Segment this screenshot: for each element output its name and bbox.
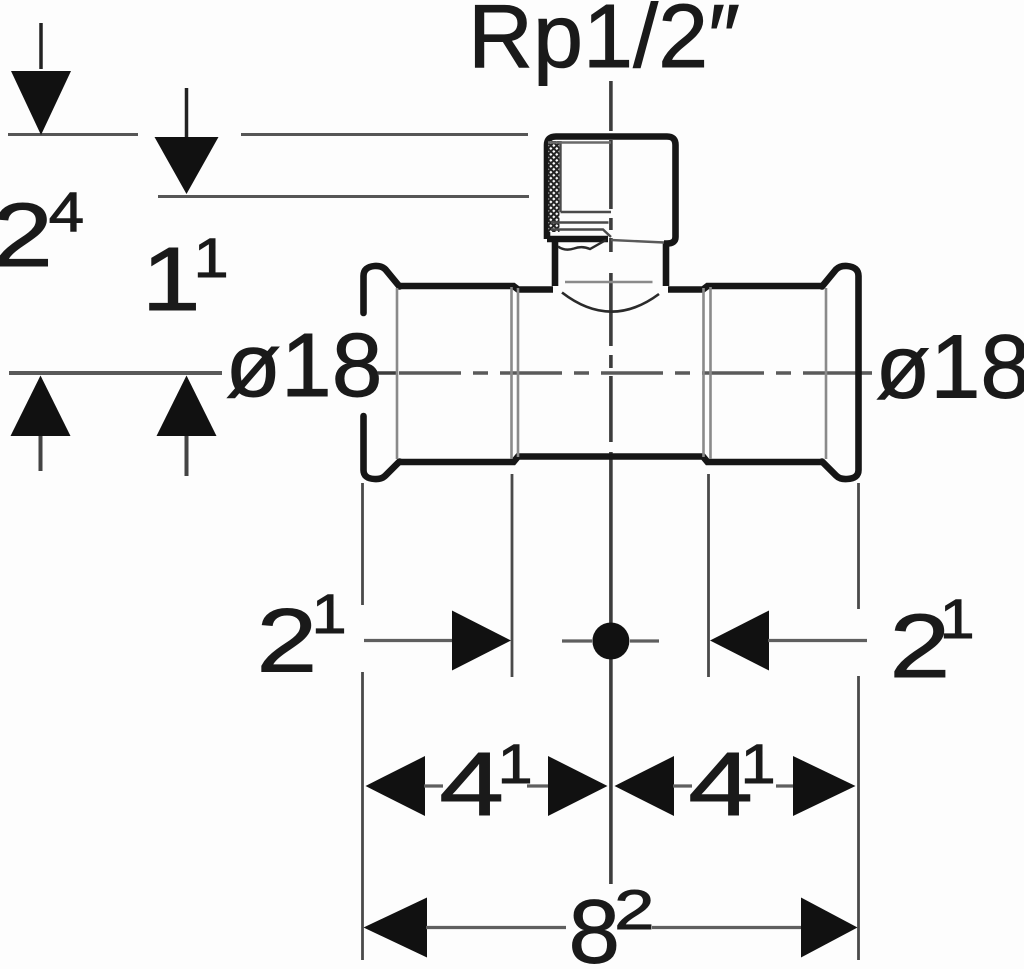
body outer line seen through branch opening: [565, 281, 653, 284]
svg-text:ø18: ø18: [225, 316, 382, 416]
svg-text:8: 8: [569, 883, 621, 969]
thread runout line 1: [551, 221, 609, 223]
dim 4-1 right: [615, 732, 856, 835]
svg-text:1: 1: [194, 226, 229, 289]
socket end thin line left x=397: [396, 288, 399, 459]
svg-text:4: 4: [439, 735, 504, 835]
svg-text:Rp1/2″: Rp1/2″: [468, 0, 740, 87]
extension line top-of-fitting level y=134: [8, 133, 528, 136]
svg-text:4: 4: [49, 180, 84, 243]
thread hatching Rp1/2: [549, 141, 560, 232]
thread runout line 2: [551, 230, 611, 238]
bottom extension line x=858.5: [857, 483, 860, 960]
thread bore left edge: [559, 141, 561, 212]
dim 4-1 left: [366, 732, 608, 835]
branch neck right edge: [663, 244, 670, 287]
dim 2-1 right: arrow, line, text: [710, 587, 975, 697]
svg-text:ø18: ø18: [875, 318, 1024, 418]
horizontal centerline dim line (left, at pipe axis): [9, 371, 222, 375]
branch neck left edge: [552, 241, 559, 286]
bottom extension line x=708.5: [707, 474, 710, 677]
saddle arc of branch bore: [562, 293, 659, 312]
svg-text:2: 2: [0, 186, 53, 286]
extension line thread-depth level y=196: [158, 195, 529, 198]
bottom extension line x=362.5: [361, 483, 364, 960]
svg-text:1: 1: [940, 587, 975, 650]
dimension text 1 sup 1: [142, 226, 229, 330]
dimension text o18 left: [225, 316, 382, 416]
dim 2-4 up arrow: [11, 376, 71, 472]
svg-text:2: 2: [256, 592, 317, 692]
common origin dot: [592, 623, 629, 660]
threaded socket bottom face (section side): [547, 236, 608, 243]
dim 2-1 left: text, line, arrow: [256, 582, 511, 692]
fitting: right bead (press end): [822, 266, 859, 479]
svg-text:1: 1: [142, 230, 201, 330]
dim 1-1 up arrow: [157, 376, 217, 477]
insertion depth step lines right x=703.5/710.5: [704, 287, 711, 459]
dimension text 2 sup 4: [0, 180, 84, 286]
dim 2-4 down arrow: [11, 23, 71, 135]
svg-text:1: 1: [741, 732, 776, 795]
thread depth line: [561, 211, 612, 213]
socket inner top face line: [548, 141, 611, 143]
insertion depth step lines left x=511.5/518: [512, 287, 519, 459]
dim 8-2: [364, 878, 858, 969]
bottom extension line x=512: [511, 474, 514, 677]
socket end thin line right x=826: [825, 288, 828, 459]
fitting: body bottom edge: [399, 457, 823, 463]
fitting: left bead (press end): [364, 266, 400, 479]
socket bottom silhouette (exterior half): [611, 240, 664, 243]
svg-text:1: 1: [312, 582, 347, 645]
dim 1-1 down arrow: [155, 88, 219, 194]
dimension text o18 right: [875, 318, 1024, 418]
vertical branch centerline (dash-dot): [609, 81, 613, 884]
weld break wavy line in neck: [558, 240, 606, 250]
threaded socket outer outline: [547, 137, 676, 244]
svg-text:2: 2: [614, 878, 654, 941]
fitting: body top edge: [399, 286, 553, 290]
horizontal centerline through fitting (dash-dot): [378, 371, 398, 375]
dot stub lines: [562, 639, 659, 642]
